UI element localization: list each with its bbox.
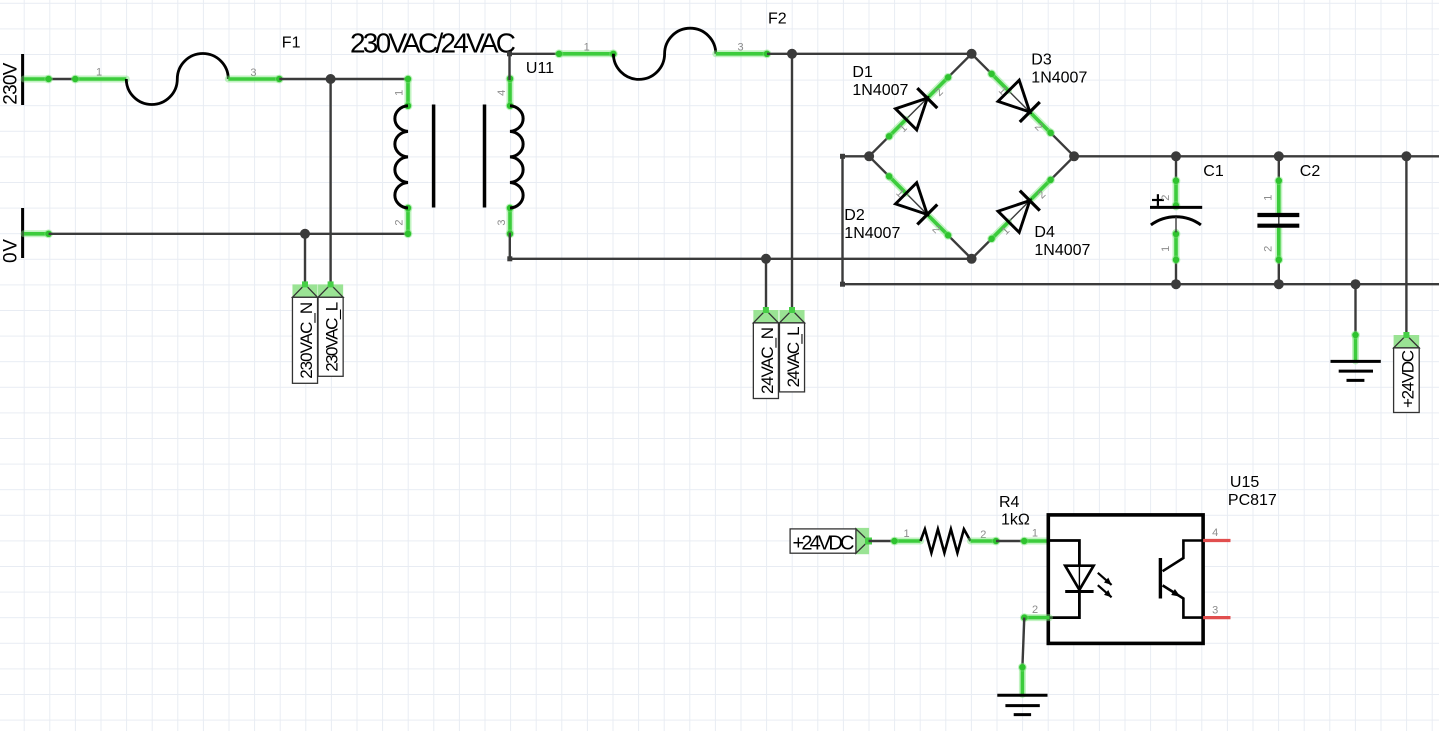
ground symbol GND1: [1331, 361, 1381, 380]
svg-text:1: 1: [96, 67, 102, 79]
svg-text:2: 2: [1263, 246, 1275, 252]
node junction 24VAC_N tap: [761, 254, 771, 264]
pin 4 of U15 (red): [1203, 527, 1230, 541]
net flag 24VAC_N: [753, 307, 778, 399]
net flag +24VDC (bottom, horizontal): [790, 528, 872, 555]
wire to 24VAC_N flag: [765, 259, 767, 310]
node C2 bottom: [1274, 279, 1284, 289]
svg-text:1kΩ: 1kΩ: [1001, 512, 1030, 529]
capacitor C2: [1257, 156, 1320, 284]
svg-text:D4: D4: [1034, 224, 1055, 241]
wire bridge left corner to bottom rail: [840, 154, 869, 287]
svg-text:1: 1: [903, 528, 909, 540]
wire U15 pin 2 to ground: [1018, 604, 1049, 695]
svg-text:4: 4: [1212, 527, 1218, 539]
net flag 230VAC_L: [318, 281, 343, 376]
svg-text:F2: F2: [768, 11, 787, 28]
svg-text:+24VDC: +24VDC: [1398, 350, 1417, 408]
fuse F1: [96, 35, 301, 105]
svg-text:3: 3: [1212, 605, 1218, 617]
wire to 230VAC_N flag: [304, 234, 306, 285]
wire bottom rail (-): [843, 283, 1439, 285]
svg-text:3: 3: [496, 219, 508, 225]
ground symbol GND2: [997, 695, 1047, 714]
svg-text:24VAC_L: 24VAC_L: [784, 326, 803, 387]
node junction 0V wire / 230VAC_N tap: [300, 229, 310, 239]
svg-text:F1: F1: [282, 35, 301, 52]
node C2 top: [1274, 151, 1284, 161]
svg-text:1N4007: 1N4007: [1031, 70, 1087, 87]
svg-text:230VAC_L: 230VAC_L: [323, 302, 342, 372]
node C1 bottom: [1171, 279, 1181, 289]
svg-text:1: 1: [1032, 528, 1038, 540]
wire to +24VDC flag: [1405, 156, 1407, 335]
svg-text:230VAC_N: 230VAC_N: [297, 302, 316, 379]
svg-text:1: 1: [584, 42, 590, 54]
svg-text:R4: R4: [999, 494, 1020, 511]
svg-text:C1: C1: [1203, 163, 1224, 180]
port 230V: [1, 54, 23, 105]
wire +24VDC flag to R4: [869, 537, 921, 546]
node +24VDC tap: [1401, 151, 1411, 161]
diode D1 1N4007 (bridge left->top): [852, 54, 971, 157]
node C1 top: [1171, 151, 1181, 161]
port 0V: [0, 208, 22, 263]
wire to 24VAC_L flag: [791, 54, 793, 310]
wire 230V to F1: [24, 75, 126, 84]
wire 0V to U11 pin 2: [24, 229, 411, 238]
svg-text:PC817: PC817: [1228, 492, 1277, 509]
diode D4 1N4007 (bridge bottom->right): [972, 156, 1091, 259]
wire top output rail (+): [1074, 155, 1439, 157]
svg-text:230VAC/24VAC: 230VAC/24VAC: [350, 28, 516, 59]
svg-text:2: 2: [394, 219, 406, 225]
svg-text:+24VDC: +24VDC: [793, 533, 855, 555]
optocoupler U15 PC817 body: [1048, 474, 1277, 643]
transformer U11: [394, 60, 555, 238]
diode D2 1N4007 (bridge left->bottom): [844, 156, 971, 258]
svg-text:1N4007: 1N4007: [852, 82, 908, 99]
LED inside U15: [1048, 541, 1111, 618]
svg-text:2: 2: [1160, 195, 1172, 201]
svg-text:C2: C2: [1300, 163, 1321, 180]
capacitor C1 (polarized): [1150, 156, 1224, 284]
svg-text:U11: U11: [526, 60, 554, 77]
node bridge left corner: [864, 151, 874, 161]
fuse F2: [584, 11, 787, 80]
svg-text:D2: D2: [844, 207, 865, 224]
node bridge bottom corner: [967, 254, 977, 264]
resistor R4 1k ohm: [903, 494, 1029, 553]
svg-text:2: 2: [1032, 604, 1038, 616]
value label 230VAC/24VAC: [350, 28, 516, 59]
svg-text:230V: 230V: [1, 62, 22, 104]
svg-text:D3: D3: [1031, 52, 1052, 69]
node ground tap: [1351, 279, 1361, 289]
node bridge top corner: [967, 49, 977, 59]
wire U11 pin 4 to F2: [507, 49, 618, 80]
node junction 24VAC_L tap: [787, 49, 797, 59]
phototransistor inside U15: [1160, 541, 1203, 618]
svg-text:1N4007: 1N4007: [1034, 242, 1090, 259]
node bridge right corner: [1069, 151, 1079, 161]
svg-text:1: 1: [1160, 246, 1172, 252]
svg-text:1: 1: [1263, 195, 1275, 201]
svg-text:4: 4: [496, 90, 508, 96]
wire to 230VAC_L flag: [329, 79, 331, 284]
wire to ground (bottom rail): [1351, 284, 1360, 361]
diode D3 1N4007 (bridge top->right): [972, 52, 1088, 157]
wire F1 to U11 pin 1: [228, 75, 409, 84]
net flag 24VAC_L: [779, 307, 804, 392]
svg-text:U15: U15: [1230, 474, 1259, 491]
net flag 230VAC_N: [292, 281, 317, 383]
svg-text:0V: 0V: [0, 239, 21, 263]
wire U11 pin 3 to bridge bottom: [507, 233, 971, 262]
pin 3 of U15 (red): [1203, 605, 1230, 618]
net flag +24VDC (top right): [1394, 332, 1420, 413]
svg-text:1: 1: [394, 90, 406, 96]
svg-text:24VAC_N: 24VAC_N: [758, 327, 777, 394]
wire R4 to U15 pin 1: [971, 528, 1050, 546]
svg-text:D1: D1: [852, 64, 873, 81]
svg-text:1N4007: 1N4007: [844, 225, 900, 242]
node junction top wire / 230VAC_L tap: [326, 74, 336, 84]
wire F2 to bridge top: [716, 49, 972, 58]
